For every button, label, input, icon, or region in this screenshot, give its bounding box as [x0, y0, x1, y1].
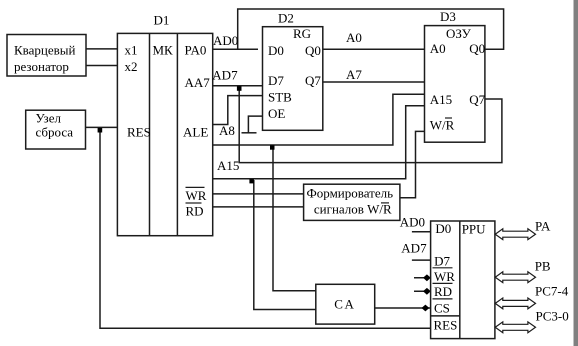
svg-text:резонатор: резонатор	[14, 59, 69, 74]
svg-text:сигналов W/R: сигналов W/R	[314, 202, 392, 217]
svg-text:D1: D1	[154, 13, 170, 28]
svg-text:PA: PA	[535, 219, 551, 234]
svg-text:МК: МК	[153, 43, 174, 58]
svg-text:D7: D7	[434, 254, 450, 269]
svg-text:Q0: Q0	[305, 43, 321, 58]
svg-text:Q7: Q7	[469, 92, 485, 107]
svg-text:AD0: AD0	[400, 214, 425, 229]
svg-text:CA: CA	[334, 297, 355, 312]
svg-text:ОЗУ: ОЗУ	[446, 26, 472, 41]
svg-text:A15: A15	[430, 92, 452, 107]
svg-text:A0: A0	[430, 41, 446, 56]
svg-text:Q0: Q0	[469, 41, 485, 56]
svg-text:D7: D7	[268, 73, 284, 88]
svg-text:W/R: W/R	[430, 118, 455, 133]
svg-text:сброса: сброса	[36, 125, 74, 140]
svg-text:RES: RES	[434, 318, 458, 333]
svg-text:A15: A15	[217, 158, 239, 173]
svg-text:D0: D0	[268, 43, 284, 58]
svg-text:RD: RD	[434, 284, 452, 299]
svg-text:PB: PB	[535, 259, 551, 274]
svg-text:STB: STB	[268, 90, 292, 105]
svg-text:PC3-0: PC3-0	[536, 309, 569, 324]
svg-text:WR: WR	[186, 188, 207, 203]
svg-text:AA7: AA7	[185, 75, 211, 90]
svg-text:CS: CS	[434, 301, 450, 316]
svg-text:Кварцевый: Кварцевый	[14, 43, 76, 58]
svg-text:WR: WR	[434, 269, 455, 284]
svg-text:Узел: Узел	[36, 111, 62, 126]
svg-text:A8: A8	[219, 123, 235, 138]
svg-text:OE: OE	[268, 106, 285, 121]
svg-text:RG: RG	[293, 26, 311, 41]
svg-text:Формирователь: Формирователь	[307, 186, 394, 201]
svg-text:ALE: ALE	[183, 125, 208, 140]
svg-text:RD: RD	[186, 204, 204, 219]
svg-text:D0: D0	[435, 221, 451, 236]
svg-text:A7: A7	[346, 67, 362, 82]
svg-text:D2: D2	[278, 10, 294, 25]
svg-text:A0: A0	[346, 30, 362, 45]
svg-text:x2: x2	[125, 59, 138, 74]
svg-text:x1: x1	[125, 43, 138, 58]
svg-text:PC7-4: PC7-4	[535, 284, 569, 299]
svg-text:AD7: AD7	[401, 240, 427, 255]
svg-text:AD0: AD0	[213, 33, 238, 48]
svg-text:PA0: PA0	[185, 43, 207, 58]
svg-text:Q7: Q7	[305, 73, 321, 88]
svg-text:AD7: AD7	[212, 68, 238, 83]
svg-text:PPU: PPU	[462, 222, 486, 237]
svg-text:D3: D3	[440, 9, 456, 24]
svg-text:RES: RES	[127, 125, 151, 140]
